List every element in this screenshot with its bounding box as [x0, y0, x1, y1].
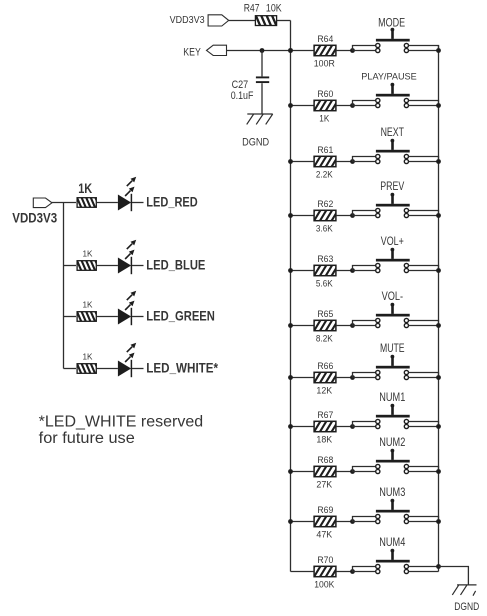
svg-text:R62: R62 [317, 199, 333, 209]
switch NEXT [376, 139, 410, 164]
wire bus to resistor (LED_BLUE) [64, 265, 77, 267]
wire rail to R70 [291, 571, 315, 573]
svg-text:VOL-: VOL- [382, 291, 404, 303]
wire rail to R67 [291, 426, 315, 428]
resistor R67 [307, 420, 344, 433]
svg-text:NUM4: NUM4 [379, 537, 405, 549]
svg-text:NEXT: NEXT [381, 127, 404, 139]
node R69/NUM3 junction [350, 519, 355, 524]
switch MODE [376, 28, 410, 53]
wire R62 to node [336, 215, 353, 217]
svg-text:5.6K: 5.6K [316, 278, 333, 288]
wire LED to label (LED_RED) [132, 202, 144, 204]
node R70/NUM4 junction [350, 569, 355, 574]
wire R67 to node [336, 426, 353, 428]
svg-text:47K: 47K [316, 529, 332, 539]
connector VDD3V3 (LED supply) [33, 198, 52, 208]
junction right rail row MUTE [436, 375, 441, 380]
svg-text:1K: 1K [78, 181, 92, 196]
wire rail to R60 [291, 105, 315, 107]
ground DGND (C27) [247, 114, 273, 124]
svg-text:2.2K: 2.2K [316, 169, 333, 179]
wire switch VOL- to right rail [409, 321, 439, 326]
svg-text:R63: R63 [317, 254, 333, 264]
junction KEY/rail [288, 48, 293, 53]
switch NUM2 [376, 449, 410, 474]
junction right rail row PLAY/PAUSE [436, 103, 441, 108]
connector KEY [207, 45, 227, 55]
junction right rail row VOL+ [436, 268, 441, 273]
svg-text:LED_WHITE*: LED_WHITE* [146, 360, 218, 376]
svg-text:18K: 18K [316, 434, 332, 444]
node R65/VOL- junction [350, 323, 355, 328]
svg-text:PLAY/PAUSE: PLAY/PAUSE [361, 72, 416, 82]
right rail (switch common) [438, 46, 440, 572]
node R61/NEXT junction [350, 159, 355, 164]
wire node to switch MUTE pins [353, 373, 376, 378]
wire C27 lower lead [261, 83, 263, 114]
node R63/VOL+ junction [350, 268, 355, 273]
svg-text:*LED_WHITE reserved: *LED_WHITE reserved [39, 413, 204, 430]
wire R47 to left rail [277, 20, 291, 22]
wire R63 to node [336, 270, 353, 272]
svg-text:0.1uF: 0.1uF [231, 90, 254, 102]
junction left rail row R68 [288, 469, 293, 474]
resistor R65 [307, 319, 344, 332]
svg-text:R67: R67 [317, 410, 333, 420]
wire switch PLAY/PAUSE to right rail [409, 101, 439, 106]
svg-text:VDD3V3: VDD3V3 [170, 14, 205, 26]
svg-text:R61: R61 [317, 145, 333, 155]
svg-text:LED_GREEN: LED_GREEN [146, 308, 215, 324]
wire switch NUM2 to right rail [409, 467, 439, 472]
junction right rail row NUM3 [436, 519, 441, 524]
wire rail to R63 [291, 270, 315, 272]
junction left rail row R63 [288, 268, 293, 273]
junction right rail row VOL- [436, 323, 441, 328]
svg-text:C27: C27 [232, 79, 249, 91]
wire rail to R69 [291, 521, 315, 523]
svg-text:for future use: for future use [39, 430, 135, 447]
wire R61 to node [336, 161, 353, 163]
switch NUM3 [376, 499, 410, 524]
left rail (KEY net) [290, 21, 292, 572]
junction left rail row R66 [288, 375, 293, 380]
svg-text:R66: R66 [317, 361, 333, 371]
LED LED_RED [118, 177, 136, 212]
svg-text:DGND: DGND [454, 601, 479, 613]
capacitor C27 [256, 77, 269, 82]
wire node to switch NUM4 pins [353, 567, 376, 572]
junction C27 tap [260, 48, 265, 53]
switch PLAY/PAUSE [376, 83, 410, 108]
junction right rail row PREV [436, 213, 441, 218]
wire node to switch PLAY/PAUSE pins [353, 101, 376, 106]
junction left rail row R67 [288, 424, 293, 429]
svg-text:NUM1: NUM1 [379, 392, 405, 404]
node R66/MUTE junction [350, 375, 355, 380]
wire resistor to LED (LED_WHITE*) [96, 368, 118, 370]
wire rail to R62 [291, 215, 315, 217]
node R67/NUM1 junction [350, 424, 355, 429]
resistor R69 [307, 515, 344, 528]
svg-text:LED_BLUE: LED_BLUE [146, 257, 205, 273]
switch VOL- [376, 303, 410, 328]
svg-text:1K: 1K [83, 250, 94, 259]
wire R70 to node [336, 571, 353, 573]
node R60/PLAY/PAUSE junction [350, 103, 355, 108]
resistor R60 [307, 99, 344, 112]
wire LED to label (LED_WHITE*) [132, 368, 144, 370]
resistor R63 [307, 264, 344, 277]
svg-text:R65: R65 [317, 309, 333, 319]
wire node to switch NUM2 pins [353, 467, 376, 472]
wire switch PREV to right rail [409, 211, 439, 216]
wire node to switch NEXT pins [353, 157, 376, 162]
wire switch MUTE to right rail [409, 373, 439, 378]
wire bus to resistor (LED_WHITE*) [64, 368, 77, 370]
resistor 1K (LED_BLUE) [72, 260, 100, 272]
wire bus to resistor (LED_GREEN) [64, 316, 77, 318]
wire rail to R65 [291, 325, 315, 327]
svg-text:12K: 12K [316, 385, 332, 395]
wire rail to R61 [291, 161, 315, 163]
wire rail to R68 [291, 471, 315, 473]
junction rail/ground tap [436, 564, 441, 569]
junction left rail row R69 [288, 519, 293, 524]
svg-text:MUTE: MUTE [380, 343, 405, 355]
svg-text:R47: R47 [244, 3, 260, 15]
wire R69 to node [336, 521, 353, 523]
svg-text:VDD3V3: VDD3V3 [12, 210, 57, 225]
resistor 1K (LED_GREEN) [72, 311, 100, 323]
wire rail to R64 [291, 50, 315, 52]
svg-text:R70: R70 [317, 555, 333, 565]
resistor R68 [307, 465, 344, 478]
wire node to switch VOL- pins [353, 321, 376, 326]
wire node to switch PREV pins [353, 211, 376, 216]
wire R60 to node [336, 105, 353, 107]
wire switch MODE to right rail [409, 46, 439, 51]
svg-text:VOL+: VOL+ [381, 236, 404, 248]
connector VDD3V3 [208, 15, 229, 26]
wire node to switch MODE pins [353, 46, 376, 51]
svg-text:100K: 100K [314, 579, 334, 589]
resistor 1K (LED_WHITE*) [72, 363, 100, 375]
svg-text:R68: R68 [317, 455, 333, 465]
LED LED_WHITE* [118, 343, 136, 378]
wire LED to label (LED_GREEN) [132, 316, 144, 318]
resistor R62 [307, 209, 344, 222]
LED LED_BLUE [118, 240, 136, 275]
resistor 1K (LED_RED) [72, 197, 100, 209]
wire R66 to node [336, 377, 353, 379]
svg-text:R60: R60 [317, 89, 333, 99]
switch VOL+ [376, 248, 410, 273]
wire node to switch NUM3 pins [353, 517, 376, 522]
svg-text:PREV: PREV [380, 181, 404, 193]
wire resistor to LED (LED_BLUE) [96, 265, 118, 267]
wire resistor to LED (LED_RED) [96, 202, 118, 204]
resistor R61 [307, 155, 344, 168]
svg-text:8.2K: 8.2K [316, 333, 333, 343]
junction left rail row R64 [288, 48, 293, 53]
wire VDD3V3 to R47 [229, 20, 256, 22]
switch NUM4 [376, 549, 410, 574]
svg-text:NUM2: NUM2 [379, 437, 405, 449]
switch MUTE [376, 355, 410, 380]
svg-text:NUM3: NUM3 [379, 487, 405, 499]
LED supply bus [63, 203, 65, 369]
svg-text:1K: 1K [83, 301, 94, 310]
svg-text:MODE: MODE [378, 18, 405, 30]
junction right rail row NUM1 [436, 424, 441, 429]
switch NUM1 [376, 404, 410, 429]
junction left rail row R60 [288, 103, 293, 108]
resistor R70 [307, 565, 344, 578]
junction right rail row MODE [436, 48, 441, 53]
svg-text:KEY: KEY [183, 47, 201, 59]
wire R65 to node [336, 325, 353, 327]
junction left rail row R62 [288, 213, 293, 218]
junction left rail row R65 [288, 323, 293, 328]
junction right rail row NEXT [436, 159, 441, 164]
svg-text:1K: 1K [319, 113, 329, 123]
switch PREV [376, 193, 410, 218]
svg-text:R69: R69 [317, 505, 333, 515]
svg-text:DGND: DGND [242, 137, 269, 149]
resistor R66 [307, 371, 344, 384]
wire switch NUM4 to rail end [409, 567, 439, 572]
wire node to switch NUM1 pins [353, 422, 376, 427]
LED LED_GREEN [118, 291, 136, 326]
wire switch VOL+ to right rail [409, 266, 439, 271]
resistor R47 [250, 14, 283, 27]
wire rail to R66 [291, 377, 315, 379]
svg-text:1K: 1K [83, 353, 94, 362]
svg-text:27K: 27K [316, 479, 332, 489]
wire resistor to LED (LED_GREEN) [96, 316, 118, 318]
wire node to switch VOL+ pins [353, 266, 376, 271]
wire KEY to rail [227, 50, 291, 52]
wire switch NEXT to right rail [409, 157, 439, 162]
svg-text:100R: 100R [314, 58, 335, 68]
svg-text:LED_RED: LED_RED [146, 194, 197, 210]
wire R64 to node [336, 50, 353, 52]
svg-text:R64: R64 [317, 34, 333, 44]
ground DGND (bottom) [452, 585, 476, 596]
wire C27 upper lead [261, 51, 263, 77]
wire bus to resistor (LED_RED) [52, 202, 76, 204]
junction left rail row R61 [288, 159, 293, 164]
wire LED to label (LED_BLUE) [132, 265, 144, 267]
wire switch NUM1 to right rail [409, 422, 439, 427]
wire R68 to node [336, 471, 353, 473]
svg-text:3.6K: 3.6K [316, 223, 333, 233]
junction right rail row NUM2 [436, 469, 441, 474]
wire switch NUM3 to right rail [409, 517, 439, 522]
node R64/MODE junction [350, 48, 355, 53]
node R68/NUM2 junction [350, 469, 355, 474]
resistor R64 [307, 44, 344, 57]
wire to ground DGND [439, 567, 469, 585]
node R62/PREV junction [350, 213, 355, 218]
svg-text:10K: 10K [266, 3, 282, 15]
